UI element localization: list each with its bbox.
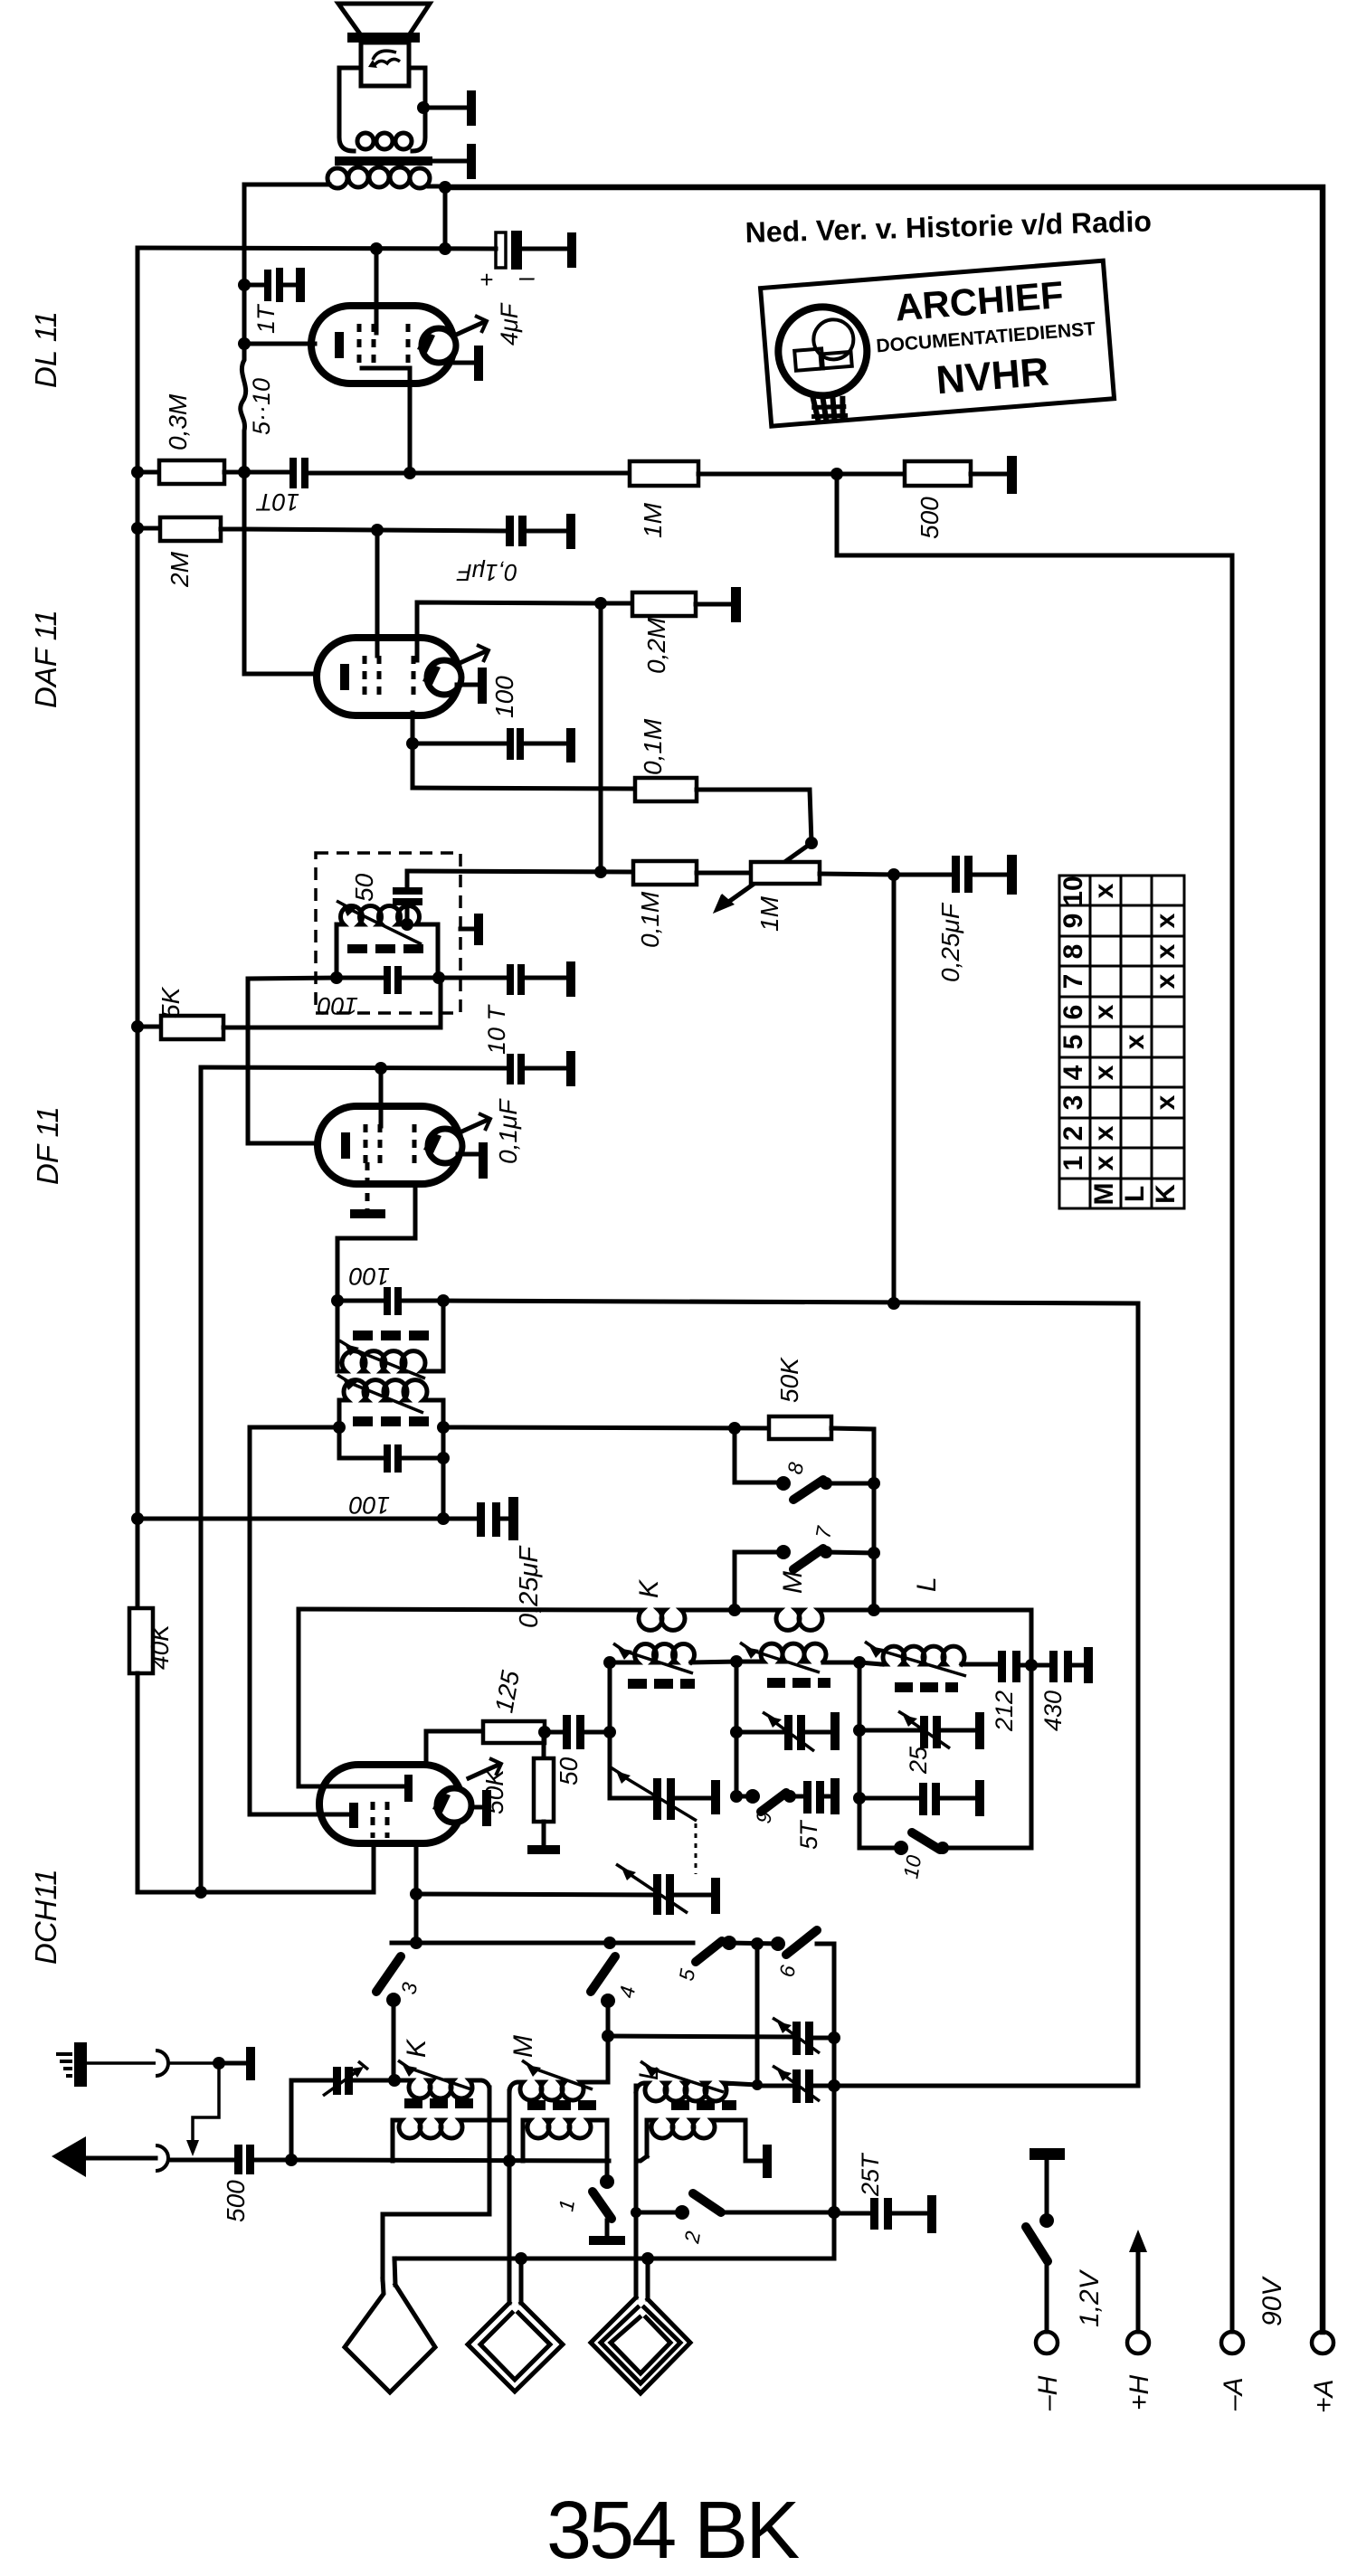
svg-text:–: – bbox=[518, 262, 535, 292]
wire DAF11 anode up bbox=[417, 602, 601, 660]
wire left bus x152 bbox=[136, 248, 140, 1608]
wire transformer left drop bbox=[242, 185, 247, 344]
output transformer primary coil bbox=[244, 167, 445, 188]
ground chassis bar bbox=[566, 961, 575, 997]
capacitor 50 (IF1 top) bbox=[393, 871, 422, 924]
svg-text:40K: 40K bbox=[146, 1624, 174, 1670]
wire L primary riser bbox=[634, 2086, 639, 2297]
node bbox=[594, 866, 607, 878]
svg-text:0,1μF: 0,1μF bbox=[494, 1098, 522, 1164]
ground chassis bar bbox=[566, 514, 575, 549]
node bbox=[131, 522, 144, 535]
node bbox=[439, 242, 451, 255]
node bbox=[868, 1604, 880, 1616]
ground chassis bar (speaker frame) bbox=[467, 90, 476, 126]
frame antenna L (three loops) bbox=[591, 2259, 690, 2393]
capacitor 5T bbox=[803, 1781, 830, 1814]
svg-text:25T: 25T bbox=[857, 2152, 884, 2197]
svg-text:M: M bbox=[508, 2035, 538, 2058]
svg-text:500: 500 bbox=[916, 497, 944, 539]
svg-text:K: K bbox=[1151, 1184, 1181, 1204]
variable capacitor (tuning 2) bbox=[757, 2066, 834, 2103]
node bbox=[603, 1726, 616, 1738]
node bbox=[730, 1655, 743, 1668]
node bbox=[602, 2030, 614, 2042]
node: speaker frame to chassis bbox=[417, 101, 430, 114]
svg-text:50K: 50K bbox=[775, 1357, 803, 1403]
svg-text:K: K bbox=[634, 1578, 664, 1598]
IF1 shield dashed box bbox=[316, 853, 460, 1013]
ground chassis bar (DCH11) bbox=[471, 1790, 491, 1826]
node bbox=[439, 181, 451, 194]
capacitor 100 (IF1) bbox=[337, 966, 438, 994]
wire screen drop bbox=[379, 1068, 384, 1126]
svg-text:3: 3 bbox=[1058, 1095, 1088, 1111]
svg-text:50: 50 bbox=[350, 873, 378, 902]
antenna transformer M secondary bbox=[523, 2120, 607, 2161]
svg-text:x: x bbox=[1151, 1094, 1181, 1110]
ground chassis bar bbox=[830, 1778, 840, 1814]
speaker voice coil bbox=[361, 43, 409, 86]
node bbox=[853, 1792, 866, 1804]
node bbox=[437, 1452, 450, 1464]
wire B+ row y275 bbox=[138, 248, 496, 249]
ground bar (switch 1) bbox=[589, 2236, 625, 2245]
table texts bbox=[1058, 876, 1181, 1205]
ground chassis bar (0,2M) bbox=[731, 587, 741, 622]
NVHR archive stamp bbox=[761, 260, 1115, 427]
potentiometer 1M wiper bbox=[713, 843, 811, 914]
node bbox=[403, 467, 416, 479]
svg-text:DCH11: DCH11 bbox=[29, 1869, 62, 1965]
resistor 0,1M (upper) bbox=[635, 778, 811, 843]
node bbox=[375, 1062, 387, 1075]
speaker magnet pot bbox=[339, 68, 425, 151]
node bbox=[406, 737, 419, 750]
svg-text:0,2M: 0,2M bbox=[642, 617, 670, 674]
node bbox=[437, 1421, 450, 1434]
oscillator coil M box bbox=[736, 1643, 859, 1796]
tube DAF11 bbox=[317, 638, 461, 715]
svg-text:x: x bbox=[1151, 913, 1181, 928]
svg-text:9: 9 bbox=[1058, 914, 1088, 929]
node bbox=[1025, 1659, 1038, 1672]
node bbox=[388, 2074, 401, 2087]
node bbox=[285, 2154, 298, 2166]
terminal -A bbox=[1221, 2332, 1243, 2353]
capacitor 500 (antenna) bbox=[234, 2145, 291, 2174]
variable capacitor (antenna trimmer) bbox=[323, 2061, 394, 2096]
antenna transformer K primary bbox=[383, 2060, 489, 2279]
wire choke row bbox=[299, 1609, 636, 1610]
svg-text:M: M bbox=[778, 1571, 808, 1594]
capacitor 25T (heater bypass) bbox=[834, 2198, 927, 2230]
node bbox=[131, 1020, 144, 1033]
variable capacitor 25 (osc L) bbox=[859, 1711, 975, 1748]
wire band switch row bbox=[392, 1941, 693, 1946]
ground chassis bar bbox=[1084, 1647, 1093, 1683]
DF11 cathode dashes to ground bbox=[365, 1162, 370, 1210]
node bbox=[195, 1886, 207, 1899]
variable capacitor (tuning 1) bbox=[608, 2018, 834, 2055]
antenna transformer K secondary bbox=[393, 2091, 509, 2161]
wire bbox=[410, 471, 630, 476]
ground chassis bar (osc K cap) bbox=[711, 1780, 720, 1814]
svg-text:+A: +A bbox=[1309, 2379, 1339, 2413]
node bbox=[238, 466, 251, 478]
ground chassis bar (IF1 shield) bbox=[460, 914, 483, 945]
svg-text:100: 100 bbox=[349, 1263, 390, 1290]
ground chassis bar bbox=[927, 2195, 936, 2233]
switch 9 bbox=[736, 1789, 803, 1812]
potentiometer 1M body bbox=[751, 862, 894, 884]
wire bbox=[443, 187, 448, 249]
resistor 50K (osc grid leak) bbox=[534, 1732, 554, 1845]
antenna transformer M primary bbox=[509, 2060, 608, 2100]
ground bar (DF11 cathode) bbox=[350, 1209, 385, 1218]
speaker cone bbox=[338, 4, 430, 43]
svg-text:5T: 5T bbox=[795, 1819, 822, 1850]
wire earth to antenna jog bbox=[186, 2063, 219, 2156]
frame antenna K (single loop) bbox=[345, 2259, 435, 2392]
svg-text:7: 7 bbox=[1058, 974, 1088, 990]
capacitor 10T (screen) bbox=[507, 1054, 566, 1084]
svg-text:–A: –A bbox=[1219, 2377, 1248, 2411]
antenna transformer M core bbox=[527, 2100, 596, 2110]
resistor 2M bbox=[138, 517, 244, 541]
svg-text:10 T: 10 T bbox=[483, 1003, 510, 1055]
node bbox=[730, 1726, 743, 1738]
svg-text:0,25μF: 0,25μF bbox=[515, 1545, 544, 1628]
wire DF11 anode circuit down bbox=[337, 1184, 415, 1301]
svg-text:6: 6 bbox=[1058, 1005, 1088, 1020]
capacitor 25T bbox=[859, 1783, 975, 1815]
oscillator coil K box bbox=[610, 1643, 736, 1798]
capacitor 100 (IF2 primary) bbox=[339, 1444, 443, 1473]
node bbox=[370, 242, 383, 255]
ground chassis bar bbox=[975, 1712, 984, 1749]
svg-text:+: + bbox=[479, 266, 493, 293]
svg-text:K: K bbox=[402, 2038, 432, 2058]
svg-text:L: L bbox=[912, 1577, 942, 1592]
ground chassis bar (DF11 anode) bbox=[458, 1142, 488, 1179]
node bbox=[887, 868, 900, 881]
node bbox=[751, 1937, 764, 1950]
svg-text:0,1M: 0,1M bbox=[639, 718, 667, 775]
resistor 5K bbox=[138, 978, 441, 1039]
ground chassis bar bbox=[975, 1780, 984, 1816]
svg-text:100: 100 bbox=[318, 992, 358, 1019]
svg-text:DF 11: DF 11 bbox=[31, 1106, 64, 1185]
ground chassis bar bbox=[508, 1497, 518, 1540]
node bbox=[330, 971, 343, 984]
wire IF2 tap down bbox=[441, 1458, 446, 1519]
wire x664 avc bbox=[599, 603, 603, 872]
svg-text:1M: 1M bbox=[639, 502, 667, 538]
antenna transformer L secondary bbox=[636, 2120, 763, 2161]
capacitor 0,1uF (DAF grid) bbox=[506, 516, 566, 546]
svg-text:50: 50 bbox=[555, 1757, 583, 1785]
resistor 50K bbox=[769, 1416, 874, 1610]
svg-text:5: 5 bbox=[1058, 1035, 1088, 1050]
switch 1 bbox=[593, 2161, 614, 2236]
node bbox=[730, 1790, 743, 1803]
node bbox=[333, 1421, 346, 1434]
node bbox=[213, 2057, 225, 2069]
oscillator coil L box bbox=[859, 1642, 998, 1848]
tube DCH11 bbox=[319, 1765, 471, 1843]
wire DL11 inner bbox=[362, 368, 410, 473]
wire IF row to gang bbox=[443, 1301, 1138, 2086]
node bbox=[432, 971, 445, 984]
svg-text:x: x bbox=[1120, 1034, 1150, 1049]
node bbox=[887, 1297, 900, 1310]
capacitor 212 bbox=[998, 1651, 1049, 1682]
node bbox=[410, 1937, 422, 1949]
node bbox=[437, 1512, 450, 1525]
antenna symbol bbox=[52, 2136, 168, 2177]
svg-text:25: 25 bbox=[905, 1746, 932, 1775]
node bbox=[238, 279, 251, 291]
svg-text:4: 4 bbox=[1058, 1065, 1088, 1080]
svg-text:500: 500 bbox=[222, 2180, 250, 2222]
switch 7 bbox=[735, 1545, 874, 1610]
wire x330 osc grid riser bbox=[299, 1609, 404, 1786]
wire bbox=[432, 159, 467, 164]
antenna transformer L core bbox=[671, 2100, 736, 2110]
switch 10 bbox=[859, 1833, 1031, 1855]
svg-text:212: 212 bbox=[991, 1690, 1018, 1732]
DAF11 anode arrow bbox=[456, 645, 489, 665]
ground chassis bar (core) bbox=[467, 144, 476, 179]
DCH11 anode arrow bbox=[469, 1758, 501, 1778]
wire DAF11 screen feed bbox=[375, 530, 380, 656]
svg-text:430: 430 bbox=[1039, 1690, 1067, 1731]
resistor 1M bbox=[630, 461, 837, 486]
node bbox=[331, 1294, 344, 1307]
variable capacitor (osc padder) bbox=[416, 1864, 711, 1915]
frame antenna M (two loops) bbox=[468, 2161, 563, 2391]
svg-text:L: L bbox=[1120, 1186, 1150, 1202]
switch 6 bbox=[771, 1930, 834, 2259]
wire antenna input row bbox=[170, 2158, 234, 2163]
node bbox=[728, 1604, 741, 1616]
wire AVC bypass row bbox=[138, 1517, 477, 1521]
svg-text:0,1M: 0,1M bbox=[636, 891, 664, 948]
DF11 anode arrow bbox=[458, 1113, 490, 1133]
node bbox=[641, 2252, 654, 2265]
wire DL11 grid lead bbox=[244, 342, 315, 346]
svg-text:100: 100 bbox=[349, 1492, 390, 1519]
wire avc row bbox=[407, 871, 633, 872]
wire 5-10 squiggle bbox=[241, 344, 246, 472]
ground bar (50K) bbox=[527, 1845, 560, 1854]
svg-text:2: 2 bbox=[1058, 1126, 1088, 1141]
node bbox=[538, 1726, 551, 1738]
svg-text:1,2V: 1,2V bbox=[1075, 2268, 1105, 2327]
svg-text:4μF: 4μF bbox=[496, 302, 523, 346]
node bbox=[410, 1888, 422, 1900]
svg-text:8: 8 bbox=[1058, 944, 1088, 960]
svg-text:100: 100 bbox=[490, 676, 518, 718]
wire -A bus bbox=[837, 474, 1232, 2332]
capacitor 0,25uF (AVC) bbox=[894, 856, 1007, 893]
resistor 500 bbox=[837, 461, 1007, 486]
wire AF coupling row bbox=[244, 529, 506, 531]
ground chassis bar bbox=[566, 1051, 575, 1086]
svg-text:90V: 90V bbox=[1257, 2276, 1287, 2326]
ground chassis bar (DL11 anode) bbox=[455, 346, 483, 381]
terminal +H with arrow bbox=[1129, 2230, 1147, 2332]
resistor 0,1M (lower) bbox=[633, 861, 751, 885]
svg-text:x: x bbox=[1089, 1155, 1119, 1170]
switch 4 bbox=[591, 1956, 615, 2082]
ground chassis bar (L secondary) bbox=[763, 2145, 772, 2178]
node bbox=[752, 2079, 763, 2090]
gang dashed link bbox=[695, 1823, 697, 1874]
wire DL11 screen feed bbox=[375, 249, 379, 327]
node bbox=[868, 1547, 880, 1559]
node bbox=[853, 1656, 866, 1669]
svg-text:5K: 5K bbox=[157, 986, 185, 1018]
IF2 secondary coil bbox=[337, 1301, 443, 1378]
svg-text:–H: –H bbox=[1033, 2375, 1063, 2411]
wire x222 bus bbox=[199, 1067, 204, 1892]
wire bbox=[693, 1608, 773, 1613]
wire bbox=[375, 327, 379, 333]
wire bbox=[755, 1944, 760, 2086]
ground chassis bar (1T) bbox=[296, 268, 305, 302]
node bbox=[631, 2207, 641, 2218]
node bbox=[238, 337, 251, 350]
DL11 anode arrow bbox=[454, 316, 487, 336]
heater switch bbox=[1026, 2148, 1065, 2332]
tube DF11 bbox=[318, 1106, 462, 1184]
wire common return bbox=[394, 2257, 834, 2261]
earth symbol bbox=[56, 2042, 219, 2087]
wire x270 riser bbox=[244, 472, 317, 674]
svg-text:+H: +H bbox=[1125, 2374, 1154, 2410]
wire common row y2389 bbox=[291, 2160, 609, 2161]
node bbox=[828, 2206, 840, 2219]
svg-text:x: x bbox=[1089, 1004, 1119, 1019]
node bbox=[131, 1512, 144, 1525]
svg-text:5··10: 5··10 bbox=[248, 378, 275, 435]
svg-text:1: 1 bbox=[1058, 1156, 1088, 1171]
switch 2 bbox=[636, 2193, 834, 2220]
svg-text:0,1μF: 0,1μF bbox=[456, 559, 517, 586]
wire DF11 screen row bbox=[201, 1067, 507, 1068]
antenna transformer L primary bbox=[636, 2061, 757, 2101]
node bbox=[868, 1477, 880, 1490]
coil M choke bbox=[773, 1610, 830, 1630]
node bbox=[728, 1422, 741, 1435]
svg-text:10: 10 bbox=[1058, 876, 1088, 905]
wire top +A bus bbox=[445, 187, 1323, 2332]
resistor 125 bbox=[426, 1721, 545, 1764]
node bbox=[853, 1724, 866, 1737]
node bbox=[603, 1937, 616, 1949]
node bbox=[603, 1656, 616, 1669]
capacitor 10T (det) bbox=[439, 964, 566, 995]
capacitor 4uF electrolytic bbox=[496, 231, 567, 270]
switch 8 bbox=[735, 1428, 874, 1500]
wire grid-return row bbox=[413, 788, 635, 789]
switch table bbox=[1059, 876, 1184, 1208]
wire x988 drop bbox=[892, 875, 897, 1303]
svg-text:10: 10 bbox=[898, 1853, 925, 1880]
svg-text:x: x bbox=[1151, 943, 1181, 959]
IF1 coil bbox=[337, 901, 438, 978]
svg-text:x: x bbox=[1089, 883, 1119, 898]
wire antenna trimmer branch bbox=[291, 2080, 333, 2160]
wire IF2 to 50K row bbox=[443, 1427, 769, 1428]
svg-text:50K: 50K bbox=[480, 1768, 508, 1814]
node bbox=[503, 2155, 516, 2167]
svg-text:DAF 11: DAF 11 bbox=[29, 610, 62, 708]
node bbox=[805, 837, 818, 849]
coil K choke bbox=[636, 1610, 693, 1630]
resistor 0,3M bbox=[138, 460, 244, 484]
terminal +A bbox=[1312, 2332, 1333, 2353]
svg-text:2M: 2M bbox=[166, 551, 194, 588]
capacitor 50 (osc coupling) bbox=[545, 1715, 610, 1749]
svg-text:x: x bbox=[1089, 1125, 1119, 1141]
capacitor 100 (DAF cathode) bbox=[413, 713, 566, 788]
svg-text:0,25μF: 0,25μF bbox=[936, 902, 964, 982]
ground chassis bar (padder) bbox=[711, 1878, 720, 1914]
node bbox=[830, 468, 843, 480]
capacitor 10T grid bbox=[244, 458, 410, 488]
svg-text:10T: 10T bbox=[255, 488, 299, 516]
capacitor 0,25uF (AVC bypass) bbox=[477, 1502, 508, 1537]
wire DCH11 osc anode down bbox=[414, 1843, 419, 1943]
svg-text:x: x bbox=[1089, 1065, 1119, 1080]
wire gang row2 bbox=[834, 2084, 1138, 2088]
node bbox=[437, 1294, 450, 1307]
switch 3 bbox=[376, 1956, 401, 2080]
ground chassis bar (DAF11 anode) bbox=[457, 668, 487, 704]
svg-text:M: M bbox=[1089, 1183, 1119, 1206]
svg-text:DL 11: DL 11 bbox=[29, 311, 62, 388]
wire osc feed left bbox=[250, 1427, 349, 1814]
node bbox=[594, 597, 607, 610]
capacitor 1T bbox=[244, 268, 296, 302]
node bbox=[371, 524, 384, 536]
node bbox=[828, 2079, 840, 2092]
wire bbox=[425, 106, 467, 110]
capacitor 430 bbox=[1049, 1651, 1084, 1682]
output transformer core bbox=[335, 156, 432, 166]
svg-text:354 BK: 354 BK bbox=[546, 2486, 800, 2576]
ground chassis bar (earth) bbox=[219, 2047, 255, 2080]
svg-text:x: x bbox=[1151, 973, 1181, 989]
svg-text:1M: 1M bbox=[755, 895, 783, 932]
wire bbox=[830, 1610, 1031, 1848]
ground chassis bar bbox=[830, 1712, 840, 1750]
ground chassis bar (500) bbox=[1007, 456, 1017, 494]
wire DCH11 cathode down bbox=[138, 1843, 374, 1892]
ground chassis bar (0,25uF) bbox=[1007, 855, 1017, 895]
node bbox=[401, 918, 413, 931]
node bbox=[515, 2252, 527, 2265]
ground chassis bar (4uF) bbox=[567, 232, 576, 268]
wire det to DF11 grid bbox=[248, 978, 337, 1143]
variable capacitor (osc M) bbox=[736, 1712, 830, 1751]
antenna transformer K core bbox=[404, 2098, 473, 2108]
capacitor 100 (IF2 secondary) bbox=[337, 1287, 443, 1315]
ground chassis bar (100) bbox=[566, 728, 575, 762]
